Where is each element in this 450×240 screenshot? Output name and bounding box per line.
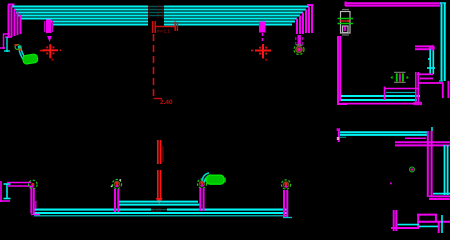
- column circle symbol top-right (green/olive/magenta): [294, 45, 304, 55]
- red dot below cross R2: [265, 59, 267, 61]
- cross wall vertical magenta double: [428, 131, 432, 197]
- svg-text:m=2,1: m=2,1: [157, 29, 170, 34]
- red dot below cross R1: [52, 59, 54, 61]
- right wall continuation cyan: [431, 127, 433, 131]
- red leader foot + text at y=98: [154, 98, 163, 100]
- red tick left of cross R1: [40, 50, 46, 52]
- column circle bottom-left: [29, 180, 38, 189]
- window W1 colored glazing: [338, 19, 354, 32]
- wall: bathroom partition magenta horizontal: [415, 46, 433, 49]
- wall: main hall top wall cyan multi-line: [12, 7, 309, 25]
- wall: dim lines inside top door gap: [148, 7, 164, 16]
- wall: alcove steps right side magenta: [417, 74, 448, 98]
- cyan ticks at wall right end: [283, 217, 292, 219]
- red dashed gap hatch: [149, 5, 163, 18]
- column marker pole B (magenta): [259, 22, 266, 33]
- bright dot on stub: [337, 137, 340, 140]
- wall: top-right room bottom wall cyan: [341, 96, 420, 100]
- wall: main hall left wall magenta multi-line: [8, 5, 21, 39]
- wall: main hall right wall magenta multi-line: [297, 5, 314, 35]
- dim cyan in bottom door gap: [151, 209, 167, 211]
- radiator green pill top-left: [22, 54, 38, 65]
- door hinge cluster top-left (green/red): [15, 44, 22, 51]
- cyan bits lower-right: [398, 215, 443, 233]
- wall: top-right room left wall magenta: [337, 36, 347, 104]
- magenta dashes down to column circle: [298, 35, 301, 46]
- wall: bottom wall cyan lines: [33, 210, 287, 213]
- column circle B2 x=202 with magenta drop: [197, 179, 206, 188]
- magenta wall bottom-left verticals: [31, 186, 40, 215]
- magenta tick above window: [345, 2, 347, 7]
- wall: top-right room top wall magenta: [345, 3, 442, 5]
- magenta lower edge of bottom wall: [341, 103, 422, 105]
- wall: lower-right stepped walls magenta: [391, 210, 450, 233]
- cross wall horizontal magenta double: [395, 142, 450, 145]
- survey cross R2 (red): [255, 44, 271, 59]
- red centerline upper (dashed): [153, 34, 155, 98]
- door swing arc at B2 (cyan): [202, 173, 211, 183]
- red arrowhead bottom: [156, 198, 163, 204]
- red dimension annotation at top door gap: [153, 21, 178, 33]
- arrow below pole A (magenta): [47, 36, 52, 42]
- wall: right magenta horizontal at y=197: [429, 196, 450, 199]
- left wall stub magenta: [338, 129, 340, 142]
- magenta wall bottom-left horizontals: [0, 181, 31, 202]
- red dot upper left area: [52, 59, 54, 61]
- wall: right wall cyan continuation below cross: [433, 145, 450, 195]
- window symbol W1 in left wall (grey frame): [341, 10, 351, 36]
- column marker pole A (magenta): [46, 20, 51, 34]
- magenta under-lines of top wall: [405, 137, 426, 139]
- svg-text:2.40: 2.40: [160, 99, 173, 106]
- tiny magenta dot: [390, 183, 392, 185]
- door swing arc top-left (cyan): [19, 46, 27, 62]
- wall: left door jamb step: [0, 34, 12, 49]
- I-beam column bottom-left (cyan): [4, 184, 11, 199]
- small fixture dot (green/magenta): [410, 167, 415, 172]
- corner tick: [440, 2, 446, 4]
- wall: bathroom partition cyan vertical: [427, 46, 435, 74]
- closet small magenta: [384, 72, 418, 103]
- column circle B1 x=117 with magenta drop: [111, 179, 122, 188]
- wall: bottom-right room top wall cyan: [340, 132, 427, 135]
- door symbol D1 (green/magenta) in top-right room: [390, 72, 408, 82]
- red centerline lower double: [158, 140, 163, 199]
- wall: top-right room right wall cyan: [442, 3, 445, 81]
- survey cross R1 (red): [43, 44, 59, 58]
- radiator green pill bottom (green): [207, 175, 226, 184]
- column circle B3 x=286 with magenta drop: [281, 180, 290, 189]
